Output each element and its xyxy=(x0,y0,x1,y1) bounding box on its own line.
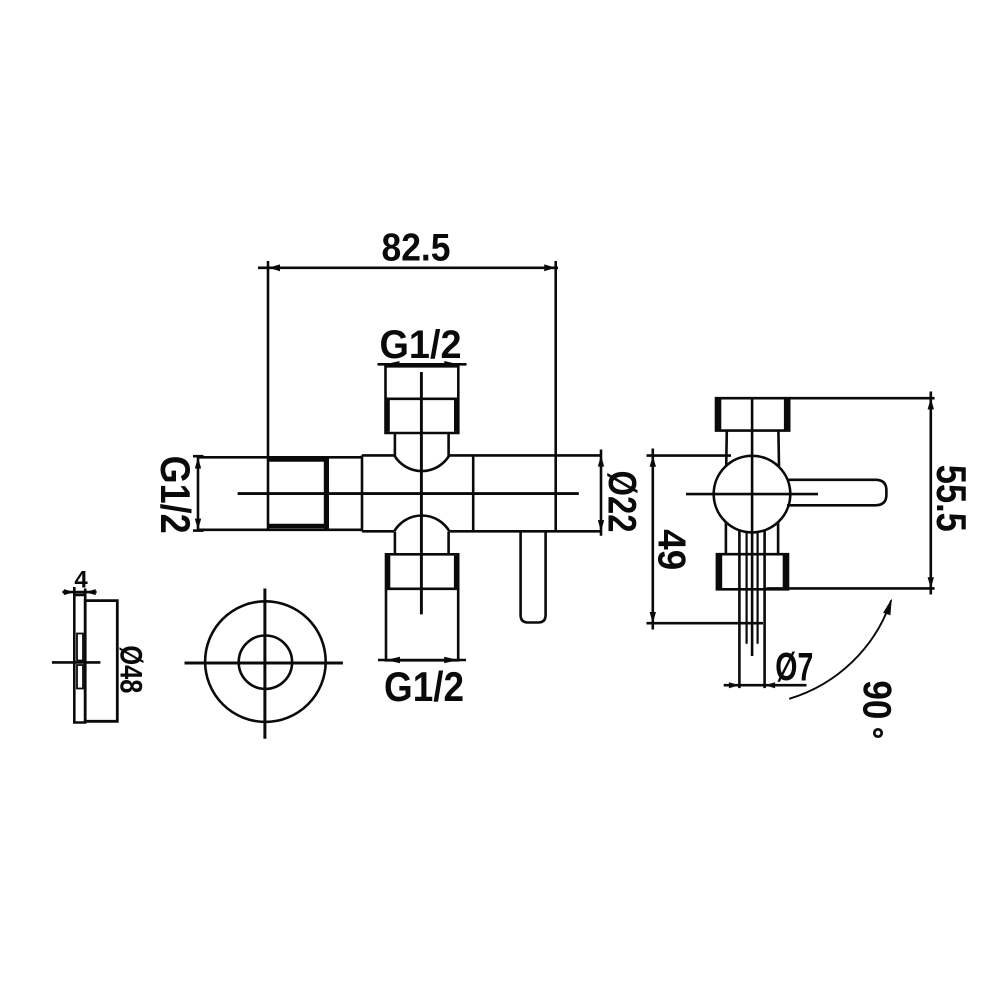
right view lower neck xyxy=(726,522,778,555)
dim 49 bottom extension xyxy=(647,622,764,625)
svg-text:Ø7: Ø7 xyxy=(775,646,813,690)
top inlet thread fitting xyxy=(386,366,459,433)
top fitting neck xyxy=(395,433,449,456)
crosshair horizontal xyxy=(185,662,343,665)
body section line B xyxy=(472,455,475,531)
svg-text:49: 49 xyxy=(650,529,693,570)
main body left section bottom edge xyxy=(198,528,362,531)
dim G1/2 top line xyxy=(378,361,467,368)
rotation arc 90 xyxy=(789,600,891,699)
dim 55.5 bottom extension xyxy=(766,587,934,590)
rotation arrowhead xyxy=(883,599,892,616)
plate slot xyxy=(77,634,83,689)
port dim left G1/2 xyxy=(193,456,204,532)
main body right section bottom edge xyxy=(362,530,601,533)
side body block xyxy=(85,601,117,722)
dim 49 top extension xyxy=(647,454,732,457)
svg-text:Ø48: Ø48 xyxy=(114,645,150,693)
dim Ø22 line xyxy=(598,450,604,536)
main body left section top edge xyxy=(198,456,362,459)
svg-text:G1/2: G1/2 xyxy=(152,456,199,534)
pipe inner bore xyxy=(747,532,758,644)
wall flange bold outline xyxy=(269,457,327,530)
right view upper neck xyxy=(726,431,779,466)
dim Ø7 line xyxy=(724,682,807,688)
svg-text:Ø22: Ø22 xyxy=(599,471,643,533)
crosshair vertical xyxy=(263,589,266,739)
right view centerline vertical xyxy=(751,400,754,657)
dim 55.5 line xyxy=(928,392,934,595)
svg-text:G1/2: G1/2 xyxy=(384,663,464,710)
dim 82.5 line xyxy=(258,264,558,271)
bottom fitting neck xyxy=(395,532,449,555)
handle xyxy=(787,480,886,506)
dim 82.5 right extension xyxy=(554,261,557,531)
right view top nut xyxy=(716,398,789,430)
valve stem xyxy=(521,531,546,622)
flange inner circle xyxy=(239,636,292,689)
svg-text:82.5: 82.5 xyxy=(382,227,451,270)
svg-text:55.5: 55.5 xyxy=(928,465,975,532)
dim 55.5 top extension xyxy=(789,397,934,400)
side view centerline xyxy=(52,661,101,664)
svg-text:90: 90 xyxy=(854,680,899,720)
right view lower collar xyxy=(717,554,788,589)
valve ball xyxy=(714,456,791,533)
vertical centerline of fittings xyxy=(420,372,423,614)
dim 4 line xyxy=(62,589,96,595)
outlet pipe walls xyxy=(739,530,764,688)
right view centerline horizontal xyxy=(686,493,818,496)
flange outer circle xyxy=(205,601,326,722)
body centerline xyxy=(238,492,579,495)
dim 82.5 left extension xyxy=(267,261,270,530)
main body right section top edge xyxy=(362,454,601,457)
dim G1/2 bottom line xyxy=(378,657,466,664)
svg-text:G1/2: G1/2 xyxy=(380,323,462,367)
body section line A xyxy=(361,455,364,531)
dim 49 line xyxy=(650,449,656,630)
bottom ball joint arc xyxy=(394,515,449,531)
top ball joint arc xyxy=(394,456,449,471)
flange plate edge view xyxy=(74,587,85,723)
bottom outlet fitting xyxy=(386,554,458,660)
degree mark xyxy=(874,729,881,736)
